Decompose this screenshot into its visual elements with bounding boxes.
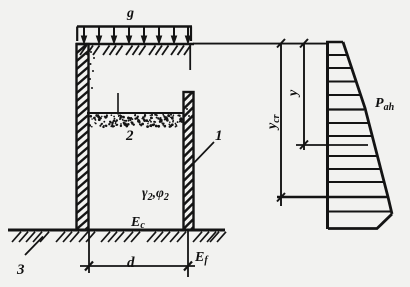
dimension y_cr: bottom tick [277, 193, 285, 202]
water table kink line [327, 108, 364, 110]
svg-text:d: d [127, 255, 135, 271]
distributed load g: outline [77, 27, 192, 42]
leader for label 1 [189, 142, 214, 168]
pressure diagram right boundary [343, 42, 392, 214]
dimension y_cr: top tick [277, 39, 285, 48]
dimension d: right tick [184, 262, 192, 271]
inner soil layer top line [87, 112, 184, 114]
stipple band layer 2 [88, 51, 190, 128]
dimension d: left extension line [88, 231, 90, 273]
dimension y: vertical line [303, 43, 305, 150]
svg-text:g: g [126, 6, 134, 21]
pressure diagram hatch lines [329, 55, 391, 212]
dimension y_cr: vertical line [280, 43, 282, 206]
pressure diagram top edge [326, 41, 343, 43]
svg-text:y: y [286, 89, 301, 98]
right edge short vertical line [189, 44, 191, 70]
surface hatching below top line [80, 46, 191, 56]
pressure diagram left edge [326, 42, 329, 229]
top surface line continuation to pressure diagram [193, 43, 327, 45]
leader for label 3 [25, 237, 43, 256]
svg-text:1: 1 [215, 128, 223, 144]
ground hatching [12, 232, 226, 242]
left wall (hatched section) [76, 42, 90, 238]
backfill top surface line [76, 43, 194, 46]
dimension d: left tick [85, 262, 93, 271]
svg-text:2: 2 [125, 128, 134, 144]
ground line [8, 229, 225, 232]
settlement tick on layer [117, 93, 119, 115]
level line at y dimension bottom [296, 144, 368, 146]
dimension y: bottom tick [300, 141, 308, 150]
dimension d: right extension line [187, 231, 189, 277]
right wall (hatched section) [183, 90, 195, 238]
distributed load g: arrows [81, 27, 190, 44]
dimension d: dimension line [80, 265, 195, 267]
level line at y_cr dimension bottom [277, 196, 388, 198]
pressure diagram bottom edge [328, 214, 392, 229]
svg-text:3: 3 [16, 262, 25, 278]
dimension y: top tick [300, 39, 308, 48]
